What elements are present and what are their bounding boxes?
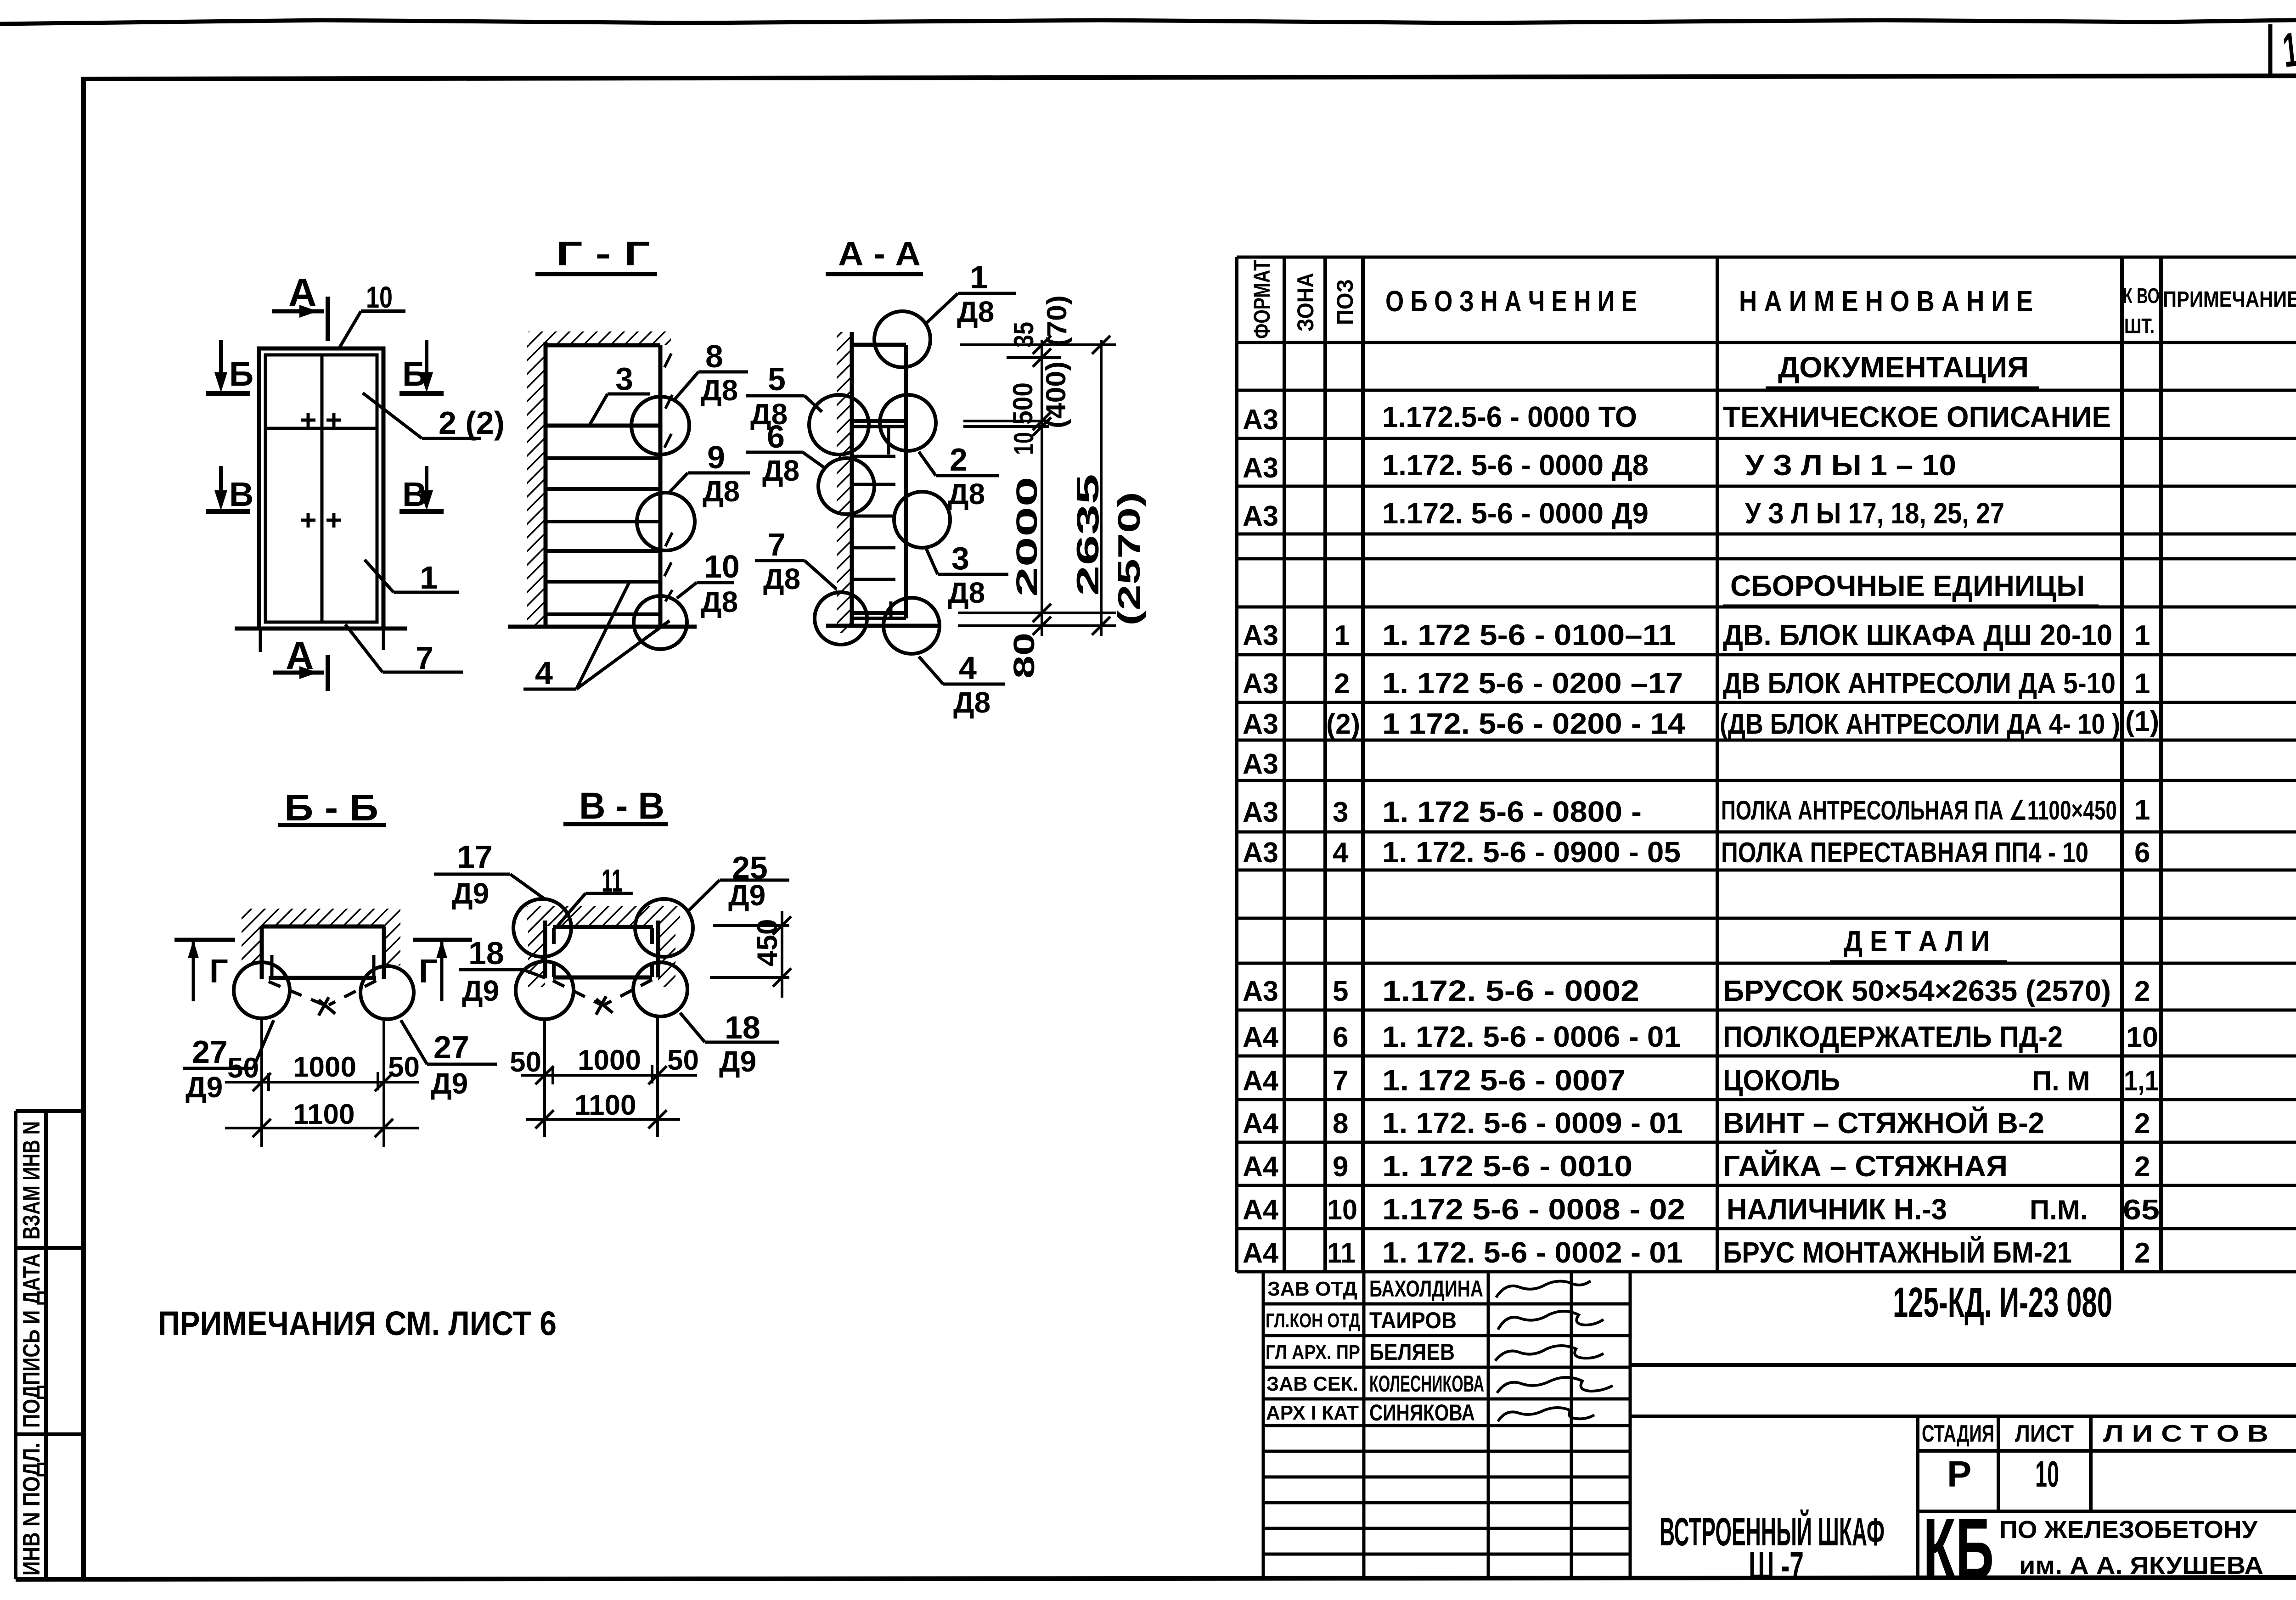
label 10 Д8	[677, 549, 740, 618]
section mark Б left	[206, 340, 253, 393]
label 1 Д8	[926, 259, 1016, 328]
svg-text:Г: Г	[209, 953, 228, 990]
wall hatch top band	[242, 909, 400, 926]
svg-text:6: 6	[2134, 837, 2150, 869]
dimension line outer	[1100, 340, 1103, 636]
callout circle node 18 right	[633, 962, 687, 1016]
svg-text:БЕЛЯЕВ: БЕЛЯЕВ	[1369, 1339, 1455, 1365]
svg-text:10: 10	[2035, 1454, 2059, 1494]
svg-text:ДОКУМЕНТАЦИЯ: ДОКУМЕНТАЦИЯ	[1778, 351, 2029, 384]
svg-text:ПРИМЕЧАНИЕ: ПРИМЕЧАНИЕ	[2163, 287, 2296, 312]
left margin stamp boxes	[16, 1111, 84, 1579]
svg-text:ДВ. БЛОК ШКАФА ДШ 20-10: ДВ. БЛОК ШКАФА ДШ 20-10	[1723, 618, 2112, 651]
dimension extension 35	[1007, 356, 1061, 359]
svg-text:ДВ БЛОК АНТРЕСОЛИ ДА 5-10: ДВ БЛОК АНТРЕСОЛИ ДА 5-10	[1723, 667, 2116, 700]
svg-text:2: 2	[2134, 1237, 2150, 1269]
inner face marks	[270, 955, 274, 977]
svg-text:ЛИСТ: ЛИСТ	[2015, 1420, 2074, 1447]
svg-text:А - А: А - А	[838, 235, 921, 273]
svg-text:ПОДПИСЬ И ДАТА: ПОДПИСЬ И ДАТА	[18, 1253, 45, 1428]
svg-text:ЗАВ СЕК.: ЗАВ СЕК.	[1266, 1373, 1358, 1395]
callout circle node 7	[815, 592, 867, 645]
svg-text:АРХ I КАТ: АРХ I КАТ	[1266, 1402, 1359, 1424]
section mark Г left	[174, 940, 235, 1001]
table grid horizontals	[1237, 257, 2296, 1272]
callout circle node 5	[809, 395, 869, 455]
callout circle node 1	[874, 311, 930, 367]
svg-text:ПО ЖЕЛЕЗОБЕТОНУ: ПО ЖЕЛЕЗОБЕТОНУ	[1999, 1516, 2258, 1544]
floor line	[826, 624, 938, 628]
svg-text:Б: Б	[229, 355, 253, 393]
svg-text:1. 172. 5-6 - 0009 - 01: 1. 172. 5-6 - 0009 - 01	[1382, 1106, 1683, 1140]
row 5 БРУСОК	[1243, 974, 2150, 1007]
shelf 5	[546, 549, 660, 553]
shelf antresol	[546, 424, 660, 428]
svg-text:50: 50	[667, 1044, 699, 1076]
svg-text:СБОРОЧНЫЕ ЕДИНИЦЫ: СБОРОЧНЫЕ ЕДИНИЦЫ	[1730, 569, 2085, 602]
label 3	[589, 361, 650, 427]
cabinet right panel	[656, 921, 660, 977]
svg-text:(2): (2)	[1326, 708, 1360, 740]
svg-text:НАЛИЧНИК Н.-3: НАЛИЧНИК Н.-3	[1727, 1193, 1947, 1226]
floor line	[508, 625, 697, 629]
svg-text:Д8: Д8	[763, 562, 800, 595]
svg-text:им. А А. ЯКУШЕВА: им. А А. ЯКУШЕВА	[2019, 1552, 2263, 1579]
svg-text:А3: А3	[1243, 797, 1278, 828]
svg-text:Д Е Т А Л И: Д Е Т А Л И	[1844, 925, 1990, 958]
svg-text:1: 1	[970, 259, 988, 295]
svg-text:ГЛ АРХ. ПР: ГЛ АРХ. ПР	[1266, 1341, 1360, 1364]
svg-text:1100: 1100	[293, 1099, 355, 1130]
svg-text:Ш -7: Ш -7	[1749, 1544, 1804, 1588]
ceiling hatch band	[529, 331, 671, 345]
dim extension left	[543, 1020, 546, 1137]
svg-text:ИНВ N ПОДЛ.: ИНВ N ПОДЛ.	[18, 1443, 45, 1576]
svg-text:6: 6	[1333, 1022, 1348, 1053]
sheet top edge line	[0, 19, 2296, 24]
dim ticks outer	[1092, 336, 1110, 635]
title area lines	[1630, 1365, 2296, 1579]
cabinet back line	[850, 332, 854, 626]
svg-text:ПОЛКА АНТРЕСОЛЬНАЯ ПА ∠1100×45: ПОЛКА АНТРЕСОЛЬНАЯ ПА ∠1100×450	[1721, 796, 2117, 825]
svg-text:7: 7	[416, 640, 433, 676]
svg-text:Г - Г: Г - Г	[556, 235, 650, 273]
svg-text:1100: 1100	[574, 1089, 636, 1121]
svg-text:10: 10	[366, 280, 393, 314]
svg-text:1. 172. 5-6 - 0900 - 05: 1. 172. 5-6 - 0900 - 05	[1382, 836, 1681, 869]
label 2 Д8	[919, 442, 999, 511]
svg-text:4: 4	[959, 650, 977, 686]
callout circle node 27 left	[234, 962, 290, 1018]
svg-text:1000: 1000	[578, 1044, 641, 1076]
svg-text:КОЛЕСНИКОВА: КОЛЕСНИКОВА	[1369, 1371, 1484, 1397]
svg-text:У З Л Ы 17, 18, 25, 27: У З Л Ы 17, 18, 25, 27	[1745, 497, 2004, 530]
label 25 Д9	[688, 850, 789, 912]
dim line 1000	[225, 1081, 419, 1084]
svg-text:4: 4	[535, 655, 553, 691]
label 18 Д9 left	[459, 935, 545, 1007]
svg-text:35: 35	[1008, 322, 1039, 348]
dim line 450	[781, 911, 783, 998]
svg-text:11: 11	[1327, 1237, 1356, 1269]
dimension extension top	[960, 343, 1116, 346]
svg-text:К ВО: К ВО	[2123, 284, 2160, 308]
svg-text:ПРИМЕЧАНИЯ СМ. ЛИСТ 6: ПРИМЕЧАНИЯ СМ. ЛИСТ 6	[158, 1304, 557, 1342]
svg-text:1,1: 1,1	[2124, 1065, 2159, 1097]
svg-text:1.172 5-6 - 0008 - 02: 1.172 5-6 - 0008 - 02	[1382, 1193, 1685, 1226]
wall hatch strip	[837, 332, 852, 633]
dim line 1000	[521, 1074, 697, 1077]
svg-text:1.172. 5-6 - 0002: 1.172. 5-6 - 0002	[1382, 974, 1639, 1007]
svg-text:500: 500	[1007, 382, 1038, 425]
label 7 Д8	[755, 527, 839, 595]
cabinet bottom line	[553, 976, 652, 980]
svg-text:18: 18	[725, 1010, 760, 1045]
svg-text:ШТ.: ШТ.	[2124, 314, 2155, 338]
svg-text:Д8: Д8	[948, 576, 985, 609]
svg-text:1. 172 5-6 - 0100–11: 1. 172 5-6 - 0100–11	[1382, 618, 1676, 651]
svg-text:125-КД. И-23 080: 125-КД. И-23 080	[1893, 1279, 2112, 1326]
svg-text:Д9: Д9	[719, 1045, 756, 1078]
svg-text:А4: А4	[1243, 1151, 1279, 1183]
svg-text:П. М: П. М	[2032, 1066, 2090, 1096]
svg-text:18: 18	[468, 935, 504, 971]
svg-text:2 (2): 2 (2)	[439, 405, 505, 441]
dim ticks 1000	[253, 1072, 393, 1091]
svg-text:В - В: В - В	[579, 785, 664, 827]
svg-text:1. 172 5-6 - 0010: 1. 172 5-6 - 0010	[1382, 1150, 1632, 1183]
dimension line inner	[1041, 340, 1043, 636]
dimension extension 2000 bottom	[958, 612, 1116, 614]
front view inner box	[265, 355, 377, 622]
svg-text:3: 3	[615, 361, 633, 397]
svg-text:(400): (400)	[1041, 361, 1071, 428]
svg-text:2: 2	[1334, 668, 1350, 700]
svg-text:10: 10	[2126, 1022, 2158, 1053]
svg-text:ЗАВ ОТД: ЗАВ ОТД	[1267, 1278, 1357, 1300]
svg-text:Д8: Д8	[957, 295, 994, 328]
label 3 Д8	[926, 540, 1008, 609]
svg-text:50: 50	[227, 1052, 259, 1084]
row 8 ВИНТ-СТЯЖНОЙ	[1243, 1106, 2150, 1140]
svg-text:27: 27	[192, 1034, 228, 1070]
svg-text:Д9: Д9	[186, 1071, 223, 1104]
svg-text:Р: Р	[1947, 1454, 1971, 1494]
label 17 Д9	[434, 839, 545, 910]
label 27 Д9 right	[401, 1020, 497, 1100]
dim ticks 1100	[253, 1119, 393, 1137]
callout circle node 25	[635, 899, 693, 957]
svg-text:Д9: Д9	[452, 877, 489, 910]
svg-text:2: 2	[2134, 976, 2150, 1007]
svg-text:ЦОКОЛЬ: ЦОКОЛЬ	[1723, 1064, 1840, 1097]
svg-text:ПОЛКА ПЕРЕСТАВНАЯ ПП4 - 10: ПОЛКА ПЕРЕСТАВНАЯ ПП4 - 10	[1721, 837, 2088, 869]
section mark A top	[272, 271, 328, 341]
callout circle node 17	[513, 899, 571, 957]
svg-text:Л И С Т О В: Л И С Т О В	[2103, 1420, 2268, 1447]
svg-text:П.М.: П.М.	[2030, 1195, 2088, 1225]
svg-text:(70): (70)	[1041, 295, 1072, 347]
label 18 Д9 right	[680, 1010, 779, 1078]
svg-text:А4: А4	[1243, 1194, 1279, 1226]
shelf 2	[546, 456, 660, 460]
dim 450 extension bottom	[710, 976, 789, 979]
svg-text:У З Л Ы 1 – 10: У З Л Ы 1 – 10	[1745, 449, 1956, 482]
stamp grid	[1263, 1272, 1630, 1579]
svg-text:10: 10	[1327, 1194, 1357, 1226]
svg-text:А3: А3	[1243, 668, 1278, 700]
label 6 Д8	[746, 419, 825, 487]
stamp names	[1369, 1276, 1484, 1426]
svg-text:2: 2	[2134, 1108, 2150, 1140]
svg-text:СТАДИЯ: СТАДИЯ	[1922, 1420, 1994, 1447]
svg-text:КБ: КБ	[1923, 1500, 1994, 1597]
front view antresol divider	[265, 427, 377, 430]
door hatch ticks	[664, 354, 672, 601]
cabinet top line	[546, 343, 660, 348]
svg-text:ВИНТ – СТЯЖНОЙ В-2: ВИНТ – СТЯЖНОЙ В-2	[1723, 1106, 2044, 1140]
svg-text:А3: А3	[1243, 500, 1278, 532]
callout circle node 10	[634, 596, 687, 649]
label 9 Д8	[668, 439, 750, 508]
callout circle node 3	[894, 492, 950, 548]
svg-text:10: 10	[1008, 432, 1039, 455]
section mark В right	[400, 466, 444, 513]
svg-text:1 172. 5-6 - 0200 - 14: 1 172. 5-6 - 0200 - 14	[1382, 707, 1685, 740]
dim extension left	[260, 1019, 263, 1147]
wall hatch strip	[527, 345, 546, 628]
svg-text:Д8: Д8	[703, 475, 740, 508]
cabinet back line	[544, 342, 548, 628]
svg-text:1.172. 5-6 - 0000 Д8: 1.172. 5-6 - 0000 Д8	[1382, 449, 1649, 482]
svg-text:БРУС МОНТАЖНЫЙ БМ-21: БРУС МОНТАЖНЫЙ БМ-21	[1723, 1235, 2072, 1269]
floor line under front view	[235, 627, 407, 631]
svg-text:А3: А3	[1243, 976, 1278, 1007]
svg-text:Г: Г	[419, 953, 438, 990]
svg-text:ПОЗ: ПОЗ	[1332, 279, 1358, 325]
cabinet top line	[262, 925, 384, 929]
row УЗЛЫ 17,18,25,27	[1243, 497, 2004, 532]
shelf edge vertical marks	[887, 427, 890, 455]
svg-text:80: 80	[1007, 633, 1041, 679]
svg-text:ФОРМАТ: ФОРМАТ	[1249, 260, 1275, 339]
svg-text:1: 1	[1334, 620, 1350, 651]
dimension extension shelf	[963, 420, 1049, 422]
dashed door V	[269, 981, 376, 1006]
svg-text:1: 1	[2134, 794, 2150, 826]
svg-text:7: 7	[768, 527, 786, 562]
svg-text:1: 1	[2134, 620, 2150, 651]
svg-text:Д8: Д8	[948, 477, 985, 511]
svg-text:ГЛ.КОН ОТД: ГЛ.КОН ОТД	[1266, 1309, 1360, 1332]
shelf 4	[546, 520, 660, 523]
svg-text:А4: А4	[1243, 1065, 1279, 1097]
antresol shelf double line	[852, 419, 906, 423]
label 4	[523, 582, 670, 691]
cabinet top line	[852, 343, 906, 347]
dim ticks 450	[773, 916, 791, 987]
cabinet front line	[658, 345, 663, 629]
svg-text:ТАИРОВ: ТАИРОВ	[1369, 1308, 1457, 1333]
svg-text:3: 3	[1333, 797, 1348, 828]
svg-text:А3: А3	[1243, 837, 1278, 869]
callout circle node 2	[880, 395, 936, 451]
section mark A bottom	[273, 634, 328, 691]
svg-text:Б - Б: Б - Б	[284, 787, 378, 829]
svg-text:Д8: Д8	[953, 686, 990, 719]
shelf 3	[546, 487, 660, 491]
svg-text:2000: 2000	[1010, 477, 1043, 597]
shelf marks	[852, 456, 895, 579]
dimension extension floor	[958, 624, 1116, 627]
wall hatch right strip	[384, 926, 400, 966]
shelf 6	[546, 580, 660, 584]
row 1 ДВ БЛОК ШКАФА	[1243, 618, 2150, 651]
svg-text:Д9: Д9	[728, 879, 765, 912]
row 6 ПОЛКОДЕРЖАТЕЛЬ	[1243, 1020, 2158, 1053]
svg-text:27: 27	[433, 1029, 469, 1065]
label 8 Д8	[675, 338, 748, 407]
cabinet inner bottom line	[269, 976, 376, 980]
svg-text:(ДВ БЛОК АНТРЕСОЛИ ДА 4- 10 ): (ДВ БЛОК АНТРЕСОЛИ ДА 4- 10 )	[1720, 708, 2120, 740]
svg-text:(1): (1)	[2125, 706, 2159, 737]
svg-text:1. 172. 5-6 - 0006 - 01: 1. 172. 5-6 - 0006 - 01	[1382, 1020, 1681, 1053]
svg-text:2: 2	[2134, 1151, 2150, 1183]
svg-text:6: 6	[767, 419, 785, 455]
svg-text:БРУСОК 50×54×2635 (2570): БРУСОК 50×54×2635 (2570)	[1723, 974, 2111, 1007]
svg-text:2635: 2635	[1070, 474, 1105, 596]
svg-text:1. 172 5-6 - 0007: 1. 172 5-6 - 0007	[1382, 1064, 1626, 1097]
cabinet left panel	[543, 921, 547, 978]
svg-text:5: 5	[768, 361, 786, 397]
svg-text:Д8: Д8	[701, 585, 738, 618]
callout circle node 27 right	[360, 966, 414, 1019]
svg-text:65: 65	[2123, 1194, 2160, 1226]
svg-text:3: 3	[951, 540, 969, 576]
wall hatch right strip	[658, 908, 675, 987]
svg-text:1. 172. 5-6 - 0002 - 01: 1. 172. 5-6 - 0002 - 01	[1382, 1236, 1683, 1269]
svg-text:ТЕХНИЧЕСКОЕ ОПИСАНИЕ: ТЕХНИЧЕСКОЕ ОПИСАНИЕ	[1723, 400, 2111, 433]
callout circle node 4	[884, 598, 940, 654]
svg-text:Д9: Д9	[462, 974, 499, 1007]
svg-text:В: В	[229, 475, 253, 513]
svg-text:Н А И М Е Н О В А Н И Е: Н А И М Е Н О В А Н И Е	[1739, 285, 2033, 318]
dim extension right	[383, 1021, 385, 1147]
screw cross marks lower	[301, 513, 341, 528]
label 11	[557, 863, 633, 927]
signatures	[1495, 1281, 1613, 1421]
callout circle node 18 left	[516, 961, 574, 1019]
section mark Б right	[400, 340, 444, 393]
row УЗЛЫ 1-10	[1243, 449, 1956, 484]
section mark Г right	[413, 940, 472, 1001]
svg-text:БАХОЛДИНА: БАХОЛДИНА	[1369, 1276, 1483, 1302]
label 7	[345, 624, 463, 676]
apex mark	[596, 996, 613, 1015]
table grid verticals	[1237, 257, 2161, 1272]
dim line 1100	[526, 1118, 680, 1121]
svg-text:1. 172 5-6 - 0800 -: 1. 172 5-6 - 0800 -	[1382, 795, 1642, 828]
svg-text:8: 8	[705, 338, 723, 374]
dim extension right	[656, 1017, 659, 1137]
label 27 Д9 left	[183, 1020, 274, 1104]
svg-text:1. 172 5-6 - 0200 –17: 1. 172 5-6 - 0200 –17	[1382, 667, 1683, 700]
svg-text:7: 7	[1333, 1065, 1348, 1097]
svg-text:ВЗАМ ИНВ N: ВЗАМ ИНВ N	[18, 1121, 45, 1240]
row 4 ПОЛКА ПЕРЕСТАВНАЯ	[1243, 836, 2150, 869]
row 11 БРУС МОНТАЖНЫЙ	[1243, 1235, 2150, 1269]
screw cross marks upper	[301, 413, 341, 427]
row ТЕХНИЧЕСКОЕ ОПИСАНИЕ	[1243, 400, 2111, 436]
svg-text:4: 4	[1333, 837, 1349, 869]
svg-text:А4: А4	[1243, 1237, 1279, 1269]
cabinet top line	[553, 925, 653, 929]
svg-text:А3: А3	[1243, 748, 1278, 780]
front view center line	[321, 355, 324, 622]
row 7 ЦОКОЛЬ	[1243, 1064, 2159, 1097]
dim line 1100	[225, 1127, 419, 1129]
apex mark	[319, 997, 335, 1016]
svg-text:50: 50	[388, 1051, 420, 1083]
svg-text:Б: Б	[402, 355, 427, 393]
cabinet front line	[904, 345, 908, 618]
dim ticks inner	[1033, 336, 1051, 635]
svg-text:А3: А3	[1243, 620, 1278, 651]
svg-text:Д8: Д8	[762, 454, 799, 487]
callout circle node 6	[818, 458, 874, 514]
svg-text:А3: А3	[1243, 708, 1278, 740]
row 10 НАЛИЧНИК	[1243, 1193, 2160, 1226]
svg-text:450: 450	[752, 919, 783, 966]
callout circle node 9	[637, 493, 695, 550]
row 9 ГАЙКА-СТЯЖНАЯ	[1243, 1149, 2150, 1183]
svg-text:СИНЯКОВА: СИНЯКОВА	[1369, 1400, 1475, 1426]
mounting bar marks	[554, 928, 652, 977]
svg-text:ЗОНА: ЗОНА	[1293, 273, 1318, 331]
callout circle node 8	[631, 397, 689, 455]
wall hatch top band	[527, 906, 680, 926]
svg-text:2: 2	[950, 442, 968, 477]
dashed door V	[553, 980, 652, 1005]
svg-text:ГАЙКА – СТЯЖНАЯ: ГАЙКА – СТЯЖНАЯ	[1723, 1149, 2008, 1183]
label 4 Д8	[919, 650, 1005, 719]
front view outer box	[259, 348, 383, 629]
svg-text:10: 10	[704, 549, 740, 584]
label 1	[365, 560, 459, 595]
svg-text:9: 9	[1333, 1151, 1348, 1183]
svg-text:1: 1	[420, 560, 438, 595]
label 2(2)	[363, 393, 505, 441]
svg-text:(2570): (2570)	[1112, 492, 1147, 626]
row 2a ДВ БЛОК АНТРЕСОЛИ ДА4	[1243, 706, 2159, 740]
svg-text:А3: А3	[1243, 452, 1278, 484]
label 10	[338, 280, 405, 349]
page number box	[2268, 24, 2273, 77]
svg-text:17: 17	[457, 839, 493, 875]
bottom shelf double line	[852, 611, 906, 615]
svg-text:50: 50	[510, 1046, 541, 1078]
svg-text:8: 8	[1333, 1108, 1348, 1140]
bottom shelf	[546, 612, 660, 616]
svg-text:1000: 1000	[293, 1051, 356, 1083]
svg-text:А4: А4	[1243, 1022, 1279, 1053]
dim ticks 1100	[535, 1110, 667, 1128]
svg-text:9: 9	[707, 439, 725, 475]
svg-text:А4: А4	[1243, 1108, 1279, 1140]
section mark В left	[206, 466, 253, 513]
dim 450 extension top	[713, 924, 789, 927]
svg-text:1.172. 5-6 - 0000 Д9: 1.172. 5-6 - 0000 Д9	[1382, 497, 1649, 530]
